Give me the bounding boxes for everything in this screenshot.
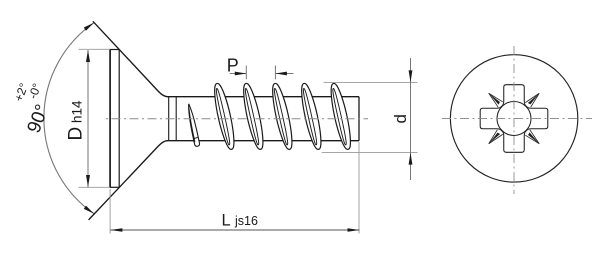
P arrow line right [275,73,293,75]
thread crest 4 [298,82,325,150]
pozidriv identification tick lower-right [525,130,542,147]
head top edge [110,49,120,51]
L dimension arrow right [348,228,360,232]
L dimension line [110,229,359,231]
slot left [480,105,502,131]
thread crest 3 [269,82,296,150]
pozidriv center circle [497,102,531,136]
side view centerline [106,118,368,120]
d dimension arrow pointing down [409,70,413,82]
head right face [118,50,120,188]
D dimension line [87,50,89,187]
D dimension extension line bottom [79,186,111,188]
core cylinder top line [167,96,360,98]
neck transition line 2 [175,97,177,141]
pozidriv slots [480,85,548,153]
P arrow line left [230,73,247,75]
head bottom edge [110,186,120,188]
P pitch tick right [274,66,276,80]
P arrowhead right pointing left [275,72,287,76]
d dimension line [410,58,412,180]
countersink lower slant line [89,141,168,220]
slot right [526,105,548,131]
P arrowhead left pointing right [235,72,247,76]
d dimension arrow pointing up [409,153,413,165]
thread crest 1 [211,82,238,150]
d dimension extension line top [324,81,418,83]
head left face [109,49,111,188]
angle dimension arc [44,23,94,214]
L dimension extension line left [109,189,111,234]
90 degree angle label [3,77,60,136]
pozidriv identification tick lower-left [486,129,503,146]
pozidriv identification tick upper-right [525,91,542,108]
thread runout sliver [186,104,200,147]
slot up [501,85,527,107]
D dimension extension line top [79,48,111,50]
svg-text:L: L [222,211,231,229]
end view horizontal centerline [442,118,592,120]
slot down [501,130,527,152]
countersink upper slant line [93,21,168,96]
D dimension arrow up [86,50,90,62]
end view vertical centerline [513,46,515,194]
angle arc arrowhead top [84,23,94,31]
thread crest 2 [240,82,267,150]
svg-text:D h14: D h14 [66,100,87,141]
screw end face [358,97,360,141]
neck transition line 1 [168,97,170,141]
angle arc arrowhead bottom [84,206,94,214]
P pitch tick left [245,66,247,80]
D dimension arrow down [86,175,90,187]
head outer circle (end view) [450,55,577,182]
svg-text:P: P [227,56,239,76]
pozidriv identification tick upper-left [486,90,503,107]
thread crest 5 [328,82,355,150]
core cylinder bottom line [167,140,360,142]
svg-text:d: d [391,114,410,123]
d dimension extension line bottom [322,152,418,154]
L dimension extension line right [358,142,360,234]
L dimension arrow left [110,228,122,232]
svg-text:js16: js16 [234,214,258,228]
